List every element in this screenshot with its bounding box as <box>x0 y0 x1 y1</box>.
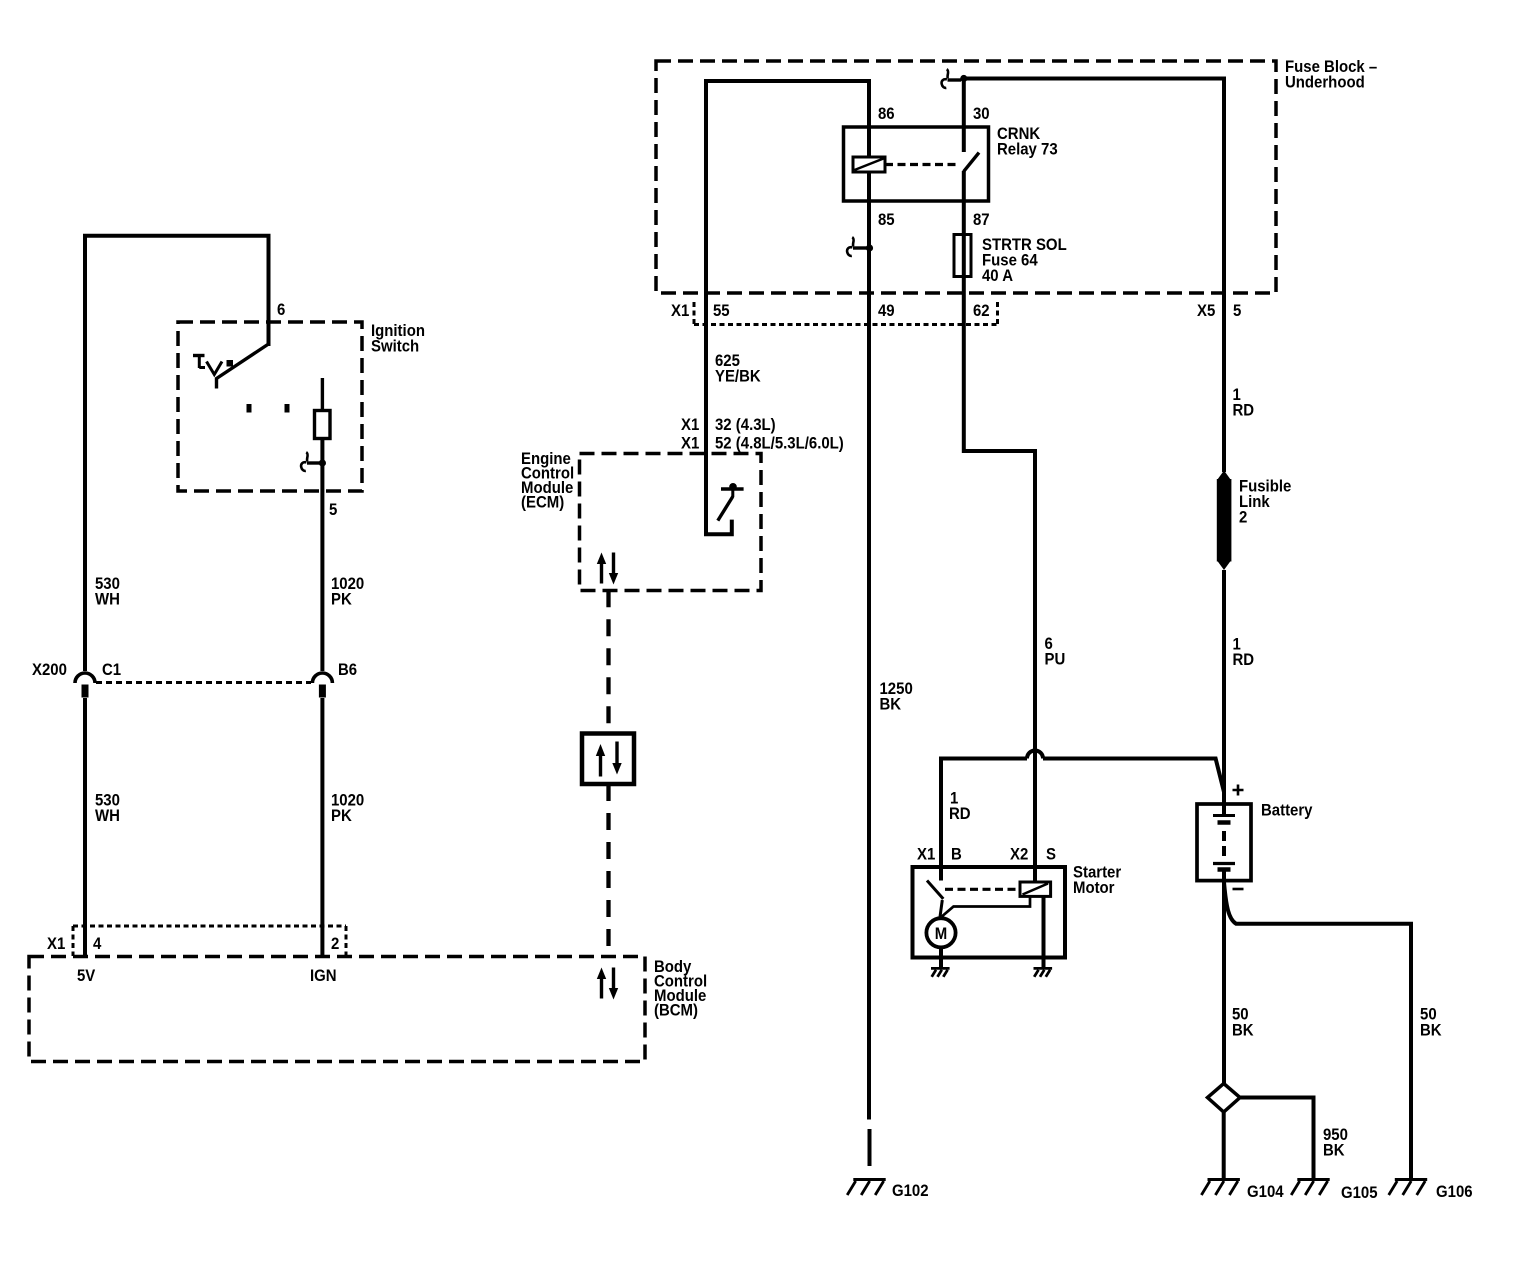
wire 1020 PK below B6 to BCM pin 2 <box>320 698 324 957</box>
ground G106 symbol <box>1389 1180 1428 1196</box>
svg-text:X2: X2 <box>1010 846 1028 864</box>
wire starter solenoid mechanical dashed link <box>945 888 1020 891</box>
wire relay switch blade <box>964 153 979 172</box>
wire 625 YE/BK pin 55 riser to relay pin 86, down into ECM switch contact <box>706 81 869 534</box>
svg-text:G102: G102 <box>892 1182 929 1200</box>
battery minus mark <box>1233 888 1244 891</box>
svg-text:BK: BK <box>1323 1142 1345 1160</box>
ground starter solenoid case symbol <box>1034 968 1053 976</box>
connector X1 fuse block dotted outline <box>694 302 998 325</box>
svg-text:PK: PK <box>331 807 352 825</box>
wire splice to G104 <box>1222 1112 1226 1179</box>
svg-text:(ECM): (ECM) <box>521 494 564 512</box>
connector X200 C1 female arc <box>75 673 95 683</box>
wire crossover hop over 6 PU <box>1027 751 1043 759</box>
svg-text:BK: BK <box>879 696 901 714</box>
svg-text:RD: RD <box>1233 651 1255 669</box>
svg-text:4: 4 <box>93 935 101 953</box>
svg-text:WH: WH <box>95 591 120 609</box>
svg-text:X5: X5 <box>1197 302 1215 320</box>
svg-text:52 (4.8L/5.3L/6.0L): 52 (4.8L/5.3L/6.0L) <box>715 435 844 453</box>
svg-text:RD: RD <box>949 805 971 823</box>
starter motor box <box>913 867 1066 958</box>
svg-text:Battery: Battery <box>1261 802 1313 820</box>
wire 1250 BK relay pin 85 down through X1-49 to G102 <box>867 172 871 1120</box>
connector X1 BCM dotted outline <box>73 926 346 956</box>
node junction dot at ignition pin 5 <box>319 459 326 466</box>
ECM serial data arrows <box>600 562 603 584</box>
wire serial data dashed ECM to data box <box>606 590 610 733</box>
fuse block underhood dashed box <box>656 61 1276 293</box>
fuse STRTR SOL 64 body <box>954 235 971 277</box>
wire resistor top lead inside ignition switch <box>321 378 324 412</box>
svg-text:Motor: Motor <box>1073 879 1115 897</box>
svg-text:6: 6 <box>277 301 285 319</box>
wire 950 BK splice to G105 <box>1240 1098 1314 1180</box>
svg-text:B6: B6 <box>338 661 357 679</box>
svg-text:86: 86 <box>878 105 895 123</box>
BCM dashed box <box>29 957 645 1062</box>
node junction dot at relay 85 <box>866 244 873 251</box>
svg-text:M: M <box>935 925 947 943</box>
wire B+ feed to fuse block X5-5 <box>964 79 1224 473</box>
ignition key symbol <box>193 354 205 357</box>
splice diamond <box>1208 1084 1241 1113</box>
svg-text:85: 85 <box>878 211 895 229</box>
hook symbol at ignition pin 5 <box>307 461 320 464</box>
svg-text:(BCM): (BCM) <box>654 1002 698 1020</box>
ECM driver transistor symbol <box>721 487 744 490</box>
svg-text:X1: X1 <box>47 935 65 953</box>
svg-text:C1: C1 <box>102 661 121 679</box>
svg-text:Relay 73: Relay 73 <box>997 141 1058 159</box>
ignition switch travel dashes <box>247 404 252 413</box>
svg-text:62: 62 <box>973 302 990 320</box>
ground starter motor case symbol <box>931 968 950 976</box>
BCM serial data arrows <box>600 977 603 999</box>
wire starter solenoid contact to motor <box>942 896 1030 917</box>
wire dash segment above G102 <box>868 1129 872 1166</box>
svg-text:32 (4.3L): 32 (4.3L) <box>715 416 776 434</box>
wire starter solenoid blade <box>927 881 943 918</box>
svg-text:2: 2 <box>1239 509 1247 527</box>
motor M circle <box>926 918 955 947</box>
ground G105 symbol <box>1291 1180 1330 1196</box>
svg-text:87: 87 <box>973 211 990 229</box>
relay CRNK 73 box <box>844 127 989 201</box>
battery plates <box>1213 814 1235 817</box>
svg-text:YE/BK: YE/BK <box>715 368 761 386</box>
svg-text:40 A: 40 A <box>982 267 1013 285</box>
svg-text:55: 55 <box>713 302 730 320</box>
resistor in ignition switch <box>315 411 331 439</box>
ground G104 symbol <box>1201 1180 1240 1196</box>
svg-text:5V: 5V <box>77 967 96 985</box>
svg-text:WH: WH <box>95 807 120 825</box>
svg-text:X1: X1 <box>917 846 935 864</box>
wire battery positive horizontal right segment <box>1043 759 1224 793</box>
wire ignition feed loop from BCM 5V up and over to ignition switch pin 6 <box>85 236 269 671</box>
relay coil <box>853 157 885 172</box>
wire 6 PU relay pin 87 through fuse 64 and X1-62 to starter solenoid S <box>964 171 1035 882</box>
svg-text:G104: G104 <box>1247 1183 1284 1201</box>
svg-text:G106: G106 <box>1436 1183 1473 1201</box>
svg-text:S: S <box>1046 846 1056 864</box>
svg-text:5: 5 <box>329 501 337 519</box>
fusible link 2 body <box>1217 479 1232 562</box>
svg-text:2: 2 <box>331 935 339 953</box>
svg-text:BK: BK <box>1420 1022 1442 1040</box>
svg-text:5: 5 <box>1233 302 1241 320</box>
starter solenoid coil <box>1020 882 1051 896</box>
serial data box with arrows <box>582 734 634 785</box>
battery plus mark <box>1233 785 1244 796</box>
svg-text:X1: X1 <box>681 416 699 434</box>
wire 530 WH below X200 to BCM pin 4 <box>83 698 87 957</box>
svg-text:PU: PU <box>1044 651 1065 669</box>
wire 50 BK battery negative bend to G106 <box>1224 882 1411 1179</box>
battery box <box>1197 804 1251 881</box>
wire connector C1-B6 dotted tie line <box>96 681 311 684</box>
svg-text:49: 49 <box>878 302 895 320</box>
wire serial data dashed data box to BCM <box>606 784 610 957</box>
svg-text:Underhood: Underhood <box>1285 74 1365 92</box>
connector B6 female arc <box>312 673 332 683</box>
svg-text:IGN: IGN <box>310 967 337 985</box>
wire ignition switch blade pin 6 <box>217 344 269 389</box>
wire 1020 PK from resistor through pin 5 down to B6 <box>320 438 324 671</box>
wire battery negative down to splice diamond <box>1222 870 1226 1084</box>
wire 1 RD starter B to battery positive, left segment <box>941 759 1027 881</box>
svg-text:RD: RD <box>1233 402 1255 420</box>
svg-text:PK: PK <box>331 591 352 609</box>
svg-text:BK: BK <box>1232 1022 1254 1040</box>
wire relay pin 30 stub <box>962 79 966 153</box>
svg-text:X1: X1 <box>671 302 689 320</box>
ignition switch dashed box <box>178 322 362 491</box>
svg-text:B: B <box>951 846 962 864</box>
wire 1 RD fusible link to battery positive <box>1222 570 1226 816</box>
svg-text:G105: G105 <box>1341 1184 1378 1202</box>
hook symbol at B+ junction <box>948 78 962 81</box>
hook symbol at relay pin 85 <box>853 246 867 249</box>
wire starter motor to ground <box>939 948 943 968</box>
ECM dashed box <box>580 454 762 591</box>
wire relay coil to blade mechanical dashed link <box>885 163 956 166</box>
svg-text:X200: X200 <box>32 661 67 679</box>
svg-text:X1: X1 <box>681 435 699 453</box>
node junction dot at relay 30 feed <box>960 75 967 82</box>
ground G102 symbol <box>847 1180 886 1196</box>
svg-text:30: 30 <box>973 105 990 123</box>
wire starter solenoid to ground <box>1042 896 1046 968</box>
svg-text:Switch: Switch <box>371 338 419 356</box>
